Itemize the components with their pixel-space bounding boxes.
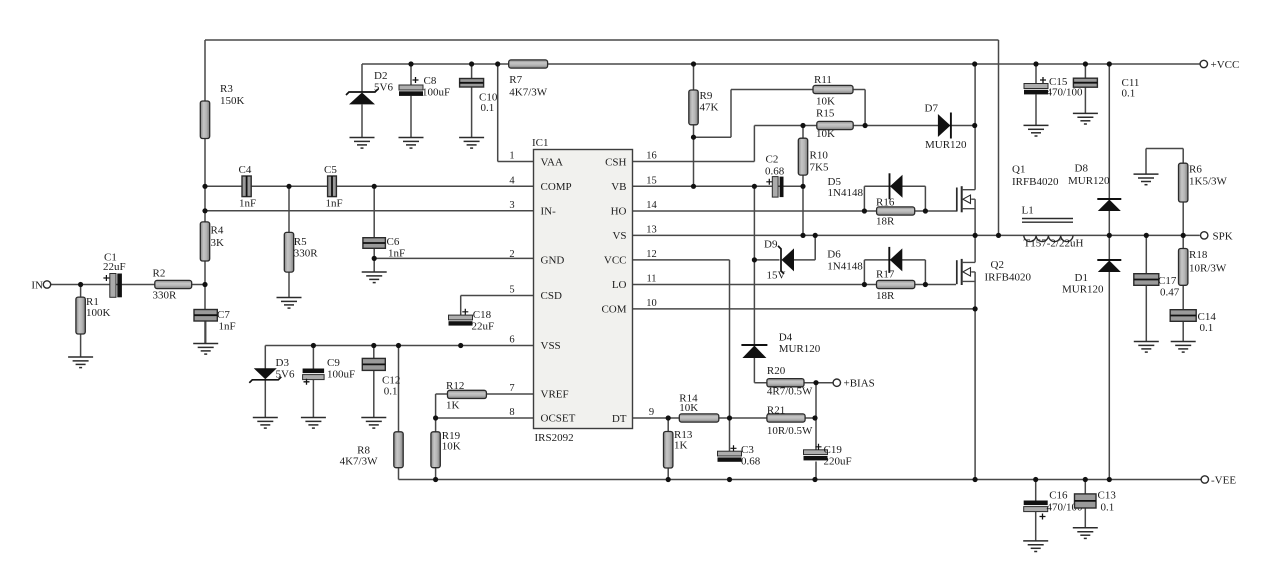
resistor R18: [1179, 249, 1227, 286]
op-amp IC1 IRS2092 class-D controller: [532, 137, 633, 444]
wire CSH line pin16: [633, 161, 755, 163]
junction dot: [433, 477, 438, 482]
diode D8 MUR120: [1068, 163, 1121, 212]
svg-text:22uF: 22uF: [103, 261, 126, 273]
wire Q1 drain column: [974, 64, 976, 190]
svg-text:7: 7: [509, 383, 514, 394]
resistor R19: [431, 430, 461, 468]
svg-text:4K7/3W: 4K7/3W: [340, 456, 379, 468]
ground (C9): [301, 418, 326, 429]
junction dot: [691, 135, 696, 140]
svg-text:330R: 330R: [153, 290, 178, 302]
wire input line: [51, 284, 205, 286]
ground (C16): [1023, 541, 1048, 552]
svg-text:C7: C7: [217, 309, 230, 321]
svg-text:D1: D1: [1075, 272, 1088, 284]
junction dot: [973, 233, 978, 238]
svg-text:0.47: 0.47: [1160, 287, 1180, 299]
svg-text:1K5/3W: 1K5/3W: [1189, 176, 1228, 188]
junction dot: [666, 415, 671, 420]
capacitor C11 0.1: [1073, 77, 1139, 100]
svg-text:10K: 10K: [816, 96, 835, 108]
capacitor C2 0.68 bootstrap: [765, 154, 785, 198]
svg-text:13: 13: [646, 225, 657, 236]
wire R10/C2 column: [802, 126, 804, 236]
svg-text:10K: 10K: [679, 402, 698, 414]
svg-text:4R7/0.5W: 4R7/0.5W: [767, 386, 813, 398]
junction dot: [1144, 233, 1149, 238]
svg-text:C17: C17: [1158, 275, 1177, 287]
svg-text:VAA: VAA: [541, 156, 563, 168]
resistor R4: [200, 222, 224, 261]
svg-text:T157-2/22uH: T157-2/22uH: [1024, 238, 1084, 250]
junction dot: [973, 477, 978, 482]
resistor R2: [153, 268, 192, 302]
svg-text:10K: 10K: [442, 441, 461, 453]
svg-text:330R: 330R: [294, 248, 319, 260]
wire C8 leads: [410, 64, 412, 138]
wire C17 column: [1145, 235, 1147, 341]
junction dot: [972, 123, 977, 128]
svg-text:R17: R17: [876, 269, 895, 281]
capacitor C5 1nF: [324, 164, 343, 210]
svg-text:10R/0.5W: 10R/0.5W: [767, 425, 813, 437]
svg-text:MUR120: MUR120: [1062, 284, 1104, 296]
wire R1 column: [80, 285, 82, 358]
svg-text:10R/3W: 10R/3W: [1189, 263, 1227, 275]
junction dot: [863, 123, 868, 128]
svg-text:CSH: CSH: [605, 156, 626, 168]
junction dot: [812, 415, 817, 420]
resistor R6: [1179, 163, 1228, 202]
wire C15 leads: [1035, 64, 1037, 125]
junction dot: [666, 477, 671, 482]
junction dot: [433, 415, 438, 420]
capacitor C3 0.68: [718, 444, 761, 467]
svg-text:MUR120: MUR120: [1068, 175, 1110, 187]
terminal +VCC: [1200, 59, 1239, 71]
svg-text:C18: C18: [473, 309, 492, 321]
resistor R14: [679, 393, 719, 423]
svg-text:220uF: 220uF: [824, 455, 852, 467]
svg-text:3K: 3K: [211, 237, 225, 249]
wire D8 cathode lead: [1108, 64, 1110, 199]
wire D4 anode to R20: [754, 358, 767, 383]
svg-text:150K: 150K: [220, 95, 245, 107]
svg-text:C19: C19: [824, 444, 843, 456]
svg-text:OCSET: OCSET: [541, 413, 576, 425]
wire R6 top to ground: [1146, 149, 1183, 175]
svg-text:4K7/3W: 4K7/3W: [509, 87, 548, 99]
svg-text:1nF: 1nF: [388, 248, 405, 260]
svg-text:COMP: COMP: [541, 181, 572, 193]
inductor L1 T157-2/22uH: [1022, 205, 1084, 250]
wire R11 right riser: [864, 90, 866, 126]
svg-text:14: 14: [646, 200, 657, 211]
svg-text:R21: R21: [767, 405, 785, 417]
svg-text:R7: R7: [509, 74, 522, 86]
junction dot: [996, 233, 1001, 238]
junction dot: [800, 233, 805, 238]
resistor R7: [509, 60, 548, 99]
svg-text:9: 9: [649, 407, 654, 418]
wire COMP line pin4: [205, 185, 534, 187]
svg-text:5: 5: [509, 285, 514, 296]
junction dot: [1033, 477, 1038, 482]
junction dot: [862, 208, 867, 213]
wire C10 leads: [471, 64, 473, 138]
svg-text:1K: 1K: [674, 440, 688, 452]
junction dot: [691, 61, 696, 66]
wire D2 lead: [361, 64, 363, 92]
wire R19 column: [435, 394, 437, 480]
capacitor C8 100uF: [399, 75, 450, 99]
wire R6 to R18: [1182, 202, 1184, 249]
junction dot: [752, 257, 757, 262]
resistor R9: [689, 90, 719, 125]
junction dot: [1107, 477, 1112, 482]
wire BIAS/C19 column: [815, 383, 817, 480]
svg-text:470/100: 470/100: [1047, 87, 1084, 99]
svg-text:0.1: 0.1: [1122, 88, 1136, 100]
junction dot: [752, 184, 757, 189]
svg-text:1nF: 1nF: [326, 198, 343, 210]
resistor R15: [816, 108, 853, 141]
capacitor C18 22uF: [449, 309, 495, 333]
resistor R1: [76, 296, 111, 334]
svg-text:11: 11: [646, 274, 656, 285]
svg-text:C6: C6: [387, 236, 400, 248]
svg-text:IRFB4020: IRFB4020: [985, 272, 1032, 284]
transistor Q1 IRFB4020: [957, 164, 1059, 213]
wire VAA feed: [498, 64, 534, 162]
junction dot: [923, 208, 928, 213]
terminal IN input: [31, 280, 50, 292]
svg-text:7K5: 7K5: [810, 162, 829, 174]
junction dot: [1107, 61, 1112, 66]
wire R13 column: [667, 418, 669, 480]
wire VSS line pin6: [265, 345, 533, 347]
svg-text:10K: 10K: [816, 128, 835, 140]
svg-text:1: 1: [509, 151, 514, 162]
wire feedback drop: [998, 40, 1000, 235]
svg-text:15V: 15V: [767, 270, 786, 282]
junction dot: [862, 282, 867, 287]
svg-text:IRFB4020: IRFB4020: [1012, 176, 1059, 188]
svg-text:CSD: CSD: [541, 290, 562, 302]
junction dot: [371, 343, 376, 348]
svg-text:0.1: 0.1: [384, 386, 398, 398]
wire COM line pin10: [633, 308, 976, 310]
svg-text:C8: C8: [424, 75, 437, 87]
wire D9 cathode lead: [754, 259, 779, 261]
junction dot: [202, 282, 207, 287]
svg-text:IN: IN: [31, 280, 43, 292]
junction dot: [1107, 233, 1112, 238]
svg-text:R11: R11: [814, 74, 832, 86]
resistor R21: [767, 405, 813, 438]
resistor R20: [767, 365, 813, 398]
svg-text:4: 4: [509, 175, 515, 186]
wire C6 column: [373, 186, 375, 272]
svg-text:R4: R4: [211, 225, 224, 237]
capacitor C14 0.1: [1170, 310, 1216, 334]
capacitor C6 1nF: [363, 236, 405, 260]
ground (D3): [253, 418, 278, 429]
wire D1 anode lead: [1108, 272, 1110, 480]
junction dot: [469, 61, 474, 66]
wire main input column: [204, 40, 206, 344]
svg-text:10: 10: [646, 298, 657, 309]
svg-text:VCC: VCC: [604, 255, 627, 267]
ground (C6/GND): [362, 272, 387, 283]
svg-text:VSS: VSS: [541, 340, 561, 352]
junction dot: [396, 343, 401, 348]
wire D6 risers: [864, 260, 925, 285]
capacitor C16 470/100: [1024, 490, 1083, 520]
svg-text:3: 3: [509, 200, 514, 211]
svg-text:+BIAS: +BIAS: [844, 378, 875, 390]
svg-text:D6: D6: [827, 249, 841, 261]
svg-text:VB: VB: [611, 181, 626, 193]
wire R5 column: [288, 186, 290, 297]
svg-text:Q2: Q2: [991, 259, 1004, 271]
svg-text:C16: C16: [1049, 490, 1068, 502]
svg-text:+VCC: +VCC: [1211, 59, 1240, 71]
capacitor C9 100uF: [303, 357, 356, 385]
svg-text:C4: C4: [239, 164, 252, 176]
svg-text:LO: LO: [612, 279, 627, 291]
svg-text:0.68: 0.68: [765, 166, 785, 178]
wire C7 ground lead: [205, 321, 207, 344]
ground (C8): [399, 138, 424, 149]
wire R11 line: [731, 89, 865, 91]
wire D5 risers: [864, 186, 925, 211]
wire Q2 source column: [974, 272, 976, 480]
svg-text:0.1: 0.1: [1200, 322, 1214, 334]
svg-text:15: 15: [646, 175, 657, 186]
junction dot: [923, 282, 928, 287]
ground (R5): [277, 298, 302, 309]
wire R16 segment: [864, 210, 925, 212]
svg-text:18R: 18R: [876, 216, 895, 228]
junction dot: [495, 61, 500, 66]
svg-text:100uF: 100uF: [327, 369, 355, 381]
diode D2 5V6 zener: [346, 70, 393, 104]
junction dot: [458, 343, 463, 348]
svg-text:1nF: 1nF: [219, 321, 236, 333]
svg-text:R10: R10: [810, 150, 829, 162]
ground (R1): [68, 357, 93, 368]
svg-text:GND: GND: [541, 254, 565, 266]
wire C12 leads: [373, 346, 375, 418]
svg-text:0.68: 0.68: [741, 455, 761, 467]
diode D1 MUR120: [1062, 260, 1121, 296]
svg-text:C13: C13: [1098, 490, 1117, 502]
junction dot: [691, 184, 696, 189]
svg-text:C5: C5: [324, 164, 337, 176]
ground (C11): [1073, 113, 1098, 124]
wire DT line pin9: [633, 417, 816, 419]
resistor R10: [798, 138, 829, 175]
junction dot: [800, 184, 805, 189]
wire R18 to C14 to ground: [1182, 285, 1184, 341]
wire Q1 gate lead: [925, 210, 956, 212]
wire -VEE rail: [399, 479, 1202, 481]
svg-text:100uF: 100uF: [422, 87, 450, 99]
svg-text:12: 12: [646, 249, 657, 260]
svg-text:R9: R9: [700, 90, 713, 102]
svg-text:R3: R3: [220, 83, 233, 95]
svg-text:D9: D9: [764, 239, 778, 251]
capacitor C13 0.1: [1075, 490, 1117, 514]
resistor R16: [876, 197, 915, 228]
wire R9 column: [693, 64, 695, 186]
ground (C10): [459, 138, 484, 149]
wire VB column: [753, 186, 755, 345]
svg-text:R18: R18: [1189, 249, 1208, 261]
svg-text:6: 6: [509, 335, 514, 346]
svg-text:IC1: IC1: [532, 137, 549, 149]
wire R15/D7 line: [754, 125, 974, 127]
junction dot: [202, 184, 207, 189]
terminal SPK: [1201, 231, 1233, 243]
svg-text:100K: 100K: [86, 307, 111, 319]
svg-text:D4: D4: [779, 332, 793, 344]
wire +VCC rail: [362, 63, 1200, 65]
junction dot: [1033, 61, 1038, 66]
wire CSH riser: [753, 126, 755, 162]
wire C9 leads: [312, 346, 314, 418]
svg-text:R5: R5: [294, 236, 307, 248]
terminal +BIAS: [833, 378, 875, 390]
junction dot: [973, 306, 978, 311]
junction dot: [972, 61, 977, 66]
svg-text:18R: 18R: [876, 290, 895, 302]
svg-text:22uF: 22uF: [472, 321, 495, 333]
svg-text:R16: R16: [876, 197, 895, 209]
svg-text:R6: R6: [1189, 164, 1202, 176]
wire VCC drop to DT/C3: [729, 260, 731, 451]
wire VB line pin15: [633, 185, 804, 187]
wire C11 leads: [1084, 64, 1086, 113]
wire D2 ground lead: [361, 104, 363, 137]
wire D8 anode / D1 cathode lead: [1108, 211, 1110, 260]
wire HO line pin14: [633, 210, 865, 212]
diode D6 1N4148: [827, 247, 902, 273]
svg-text:-VEE: -VEE: [1211, 475, 1236, 487]
junction dot: [812, 477, 817, 482]
wire D3 cathode to ground: [264, 380, 266, 418]
ground (C13): [1073, 528, 1098, 539]
svg-text:R15: R15: [816, 108, 835, 120]
junction dot: [727, 477, 732, 482]
diode D9 15V zener: [764, 239, 794, 282]
diode D7 MUR120: [925, 103, 968, 152]
junction dot: [813, 380, 818, 385]
resistor R12: [446, 380, 486, 412]
wire top feedback rail: [205, 39, 999, 41]
svg-text:D3: D3: [276, 357, 290, 369]
wire CSD line pin5: [461, 296, 534, 316]
resistor R17: [876, 269, 915, 303]
svg-text:1N4148: 1N4148: [828, 187, 864, 199]
svg-text:R20: R20: [767, 365, 786, 377]
junction dot: [286, 184, 291, 189]
svg-text:0.1: 0.1: [1101, 502, 1115, 514]
ground (C7): [193, 344, 218, 355]
svg-text:8: 8: [509, 407, 514, 418]
junction dot: [1083, 61, 1088, 66]
wire OCSET line pin8: [436, 417, 534, 419]
capacitor C10 0.1: [460, 79, 498, 115]
svg-text:IRS2092: IRS2092: [535, 432, 574, 444]
terminal -VEE: [1201, 475, 1236, 487]
svg-text:VREF: VREF: [541, 389, 569, 401]
svg-text:DT: DT: [612, 413, 627, 425]
wire R9 to R11 link: [694, 90, 732, 138]
resistor R5: [284, 232, 318, 272]
svg-text:47K: 47K: [700, 102, 719, 114]
ground (C15): [1024, 125, 1049, 136]
wire Q1 source / VS / Q2 drain column: [974, 199, 976, 262]
svg-text:C9: C9: [327, 357, 340, 369]
svg-text:1N4148: 1N4148: [827, 261, 863, 273]
svg-text:IN-: IN-: [541, 206, 557, 218]
svg-text:HO: HO: [611, 206, 627, 218]
wire GND line pin2: [374, 257, 533, 259]
wire Q2 gate lead: [925, 284, 956, 286]
wire R8 column: [398, 346, 400, 480]
svg-text:R2: R2: [153, 268, 166, 280]
resistor R3: [200, 83, 244, 139]
junction dot: [78, 282, 83, 287]
capacitor C17 0.47: [1134, 274, 1180, 299]
svg-text:L1: L1: [1022, 205, 1034, 217]
svg-text:0.1: 0.1: [481, 102, 495, 114]
svg-text:D8: D8: [1075, 163, 1089, 175]
svg-text:VS: VS: [612, 230, 626, 242]
transistor Q2 IRFB4020: [957, 259, 1032, 285]
wire R17 segment: [864, 284, 925, 286]
ground (R6): [1134, 174, 1159, 185]
ground (C12): [361, 418, 386, 429]
wire D9 anode to VS: [793, 235, 815, 260]
svg-text:D2: D2: [374, 70, 387, 82]
wire C16 leads: [1035, 480, 1037, 541]
svg-text:16: 16: [646, 151, 657, 162]
wire IN- line pin3: [205, 210, 534, 212]
svg-text:2: 2: [509, 249, 514, 260]
wire VREF line pin7: [436, 393, 534, 395]
svg-text:MUR120: MUR120: [779, 343, 821, 355]
ground (C17): [1134, 342, 1159, 353]
wire to D3: [264, 346, 266, 371]
resistor R8: [340, 432, 404, 468]
junction dot: [813, 233, 818, 238]
capacitor C19 220uF: [804, 444, 852, 468]
diode D3 5V6 zener: [249, 357, 295, 383]
junction dot: [800, 123, 805, 128]
junction dot: [408, 61, 413, 66]
wire LO line pin11: [633, 284, 865, 286]
svg-text:SPK: SPK: [1213, 231, 1233, 243]
diode D4 MUR120: [741, 332, 820, 359]
resistor R11: [813, 74, 853, 108]
svg-text:COM: COM: [601, 304, 626, 316]
capacitor C12 0.1: [362, 358, 400, 397]
svg-text:D7: D7: [925, 103, 939, 115]
